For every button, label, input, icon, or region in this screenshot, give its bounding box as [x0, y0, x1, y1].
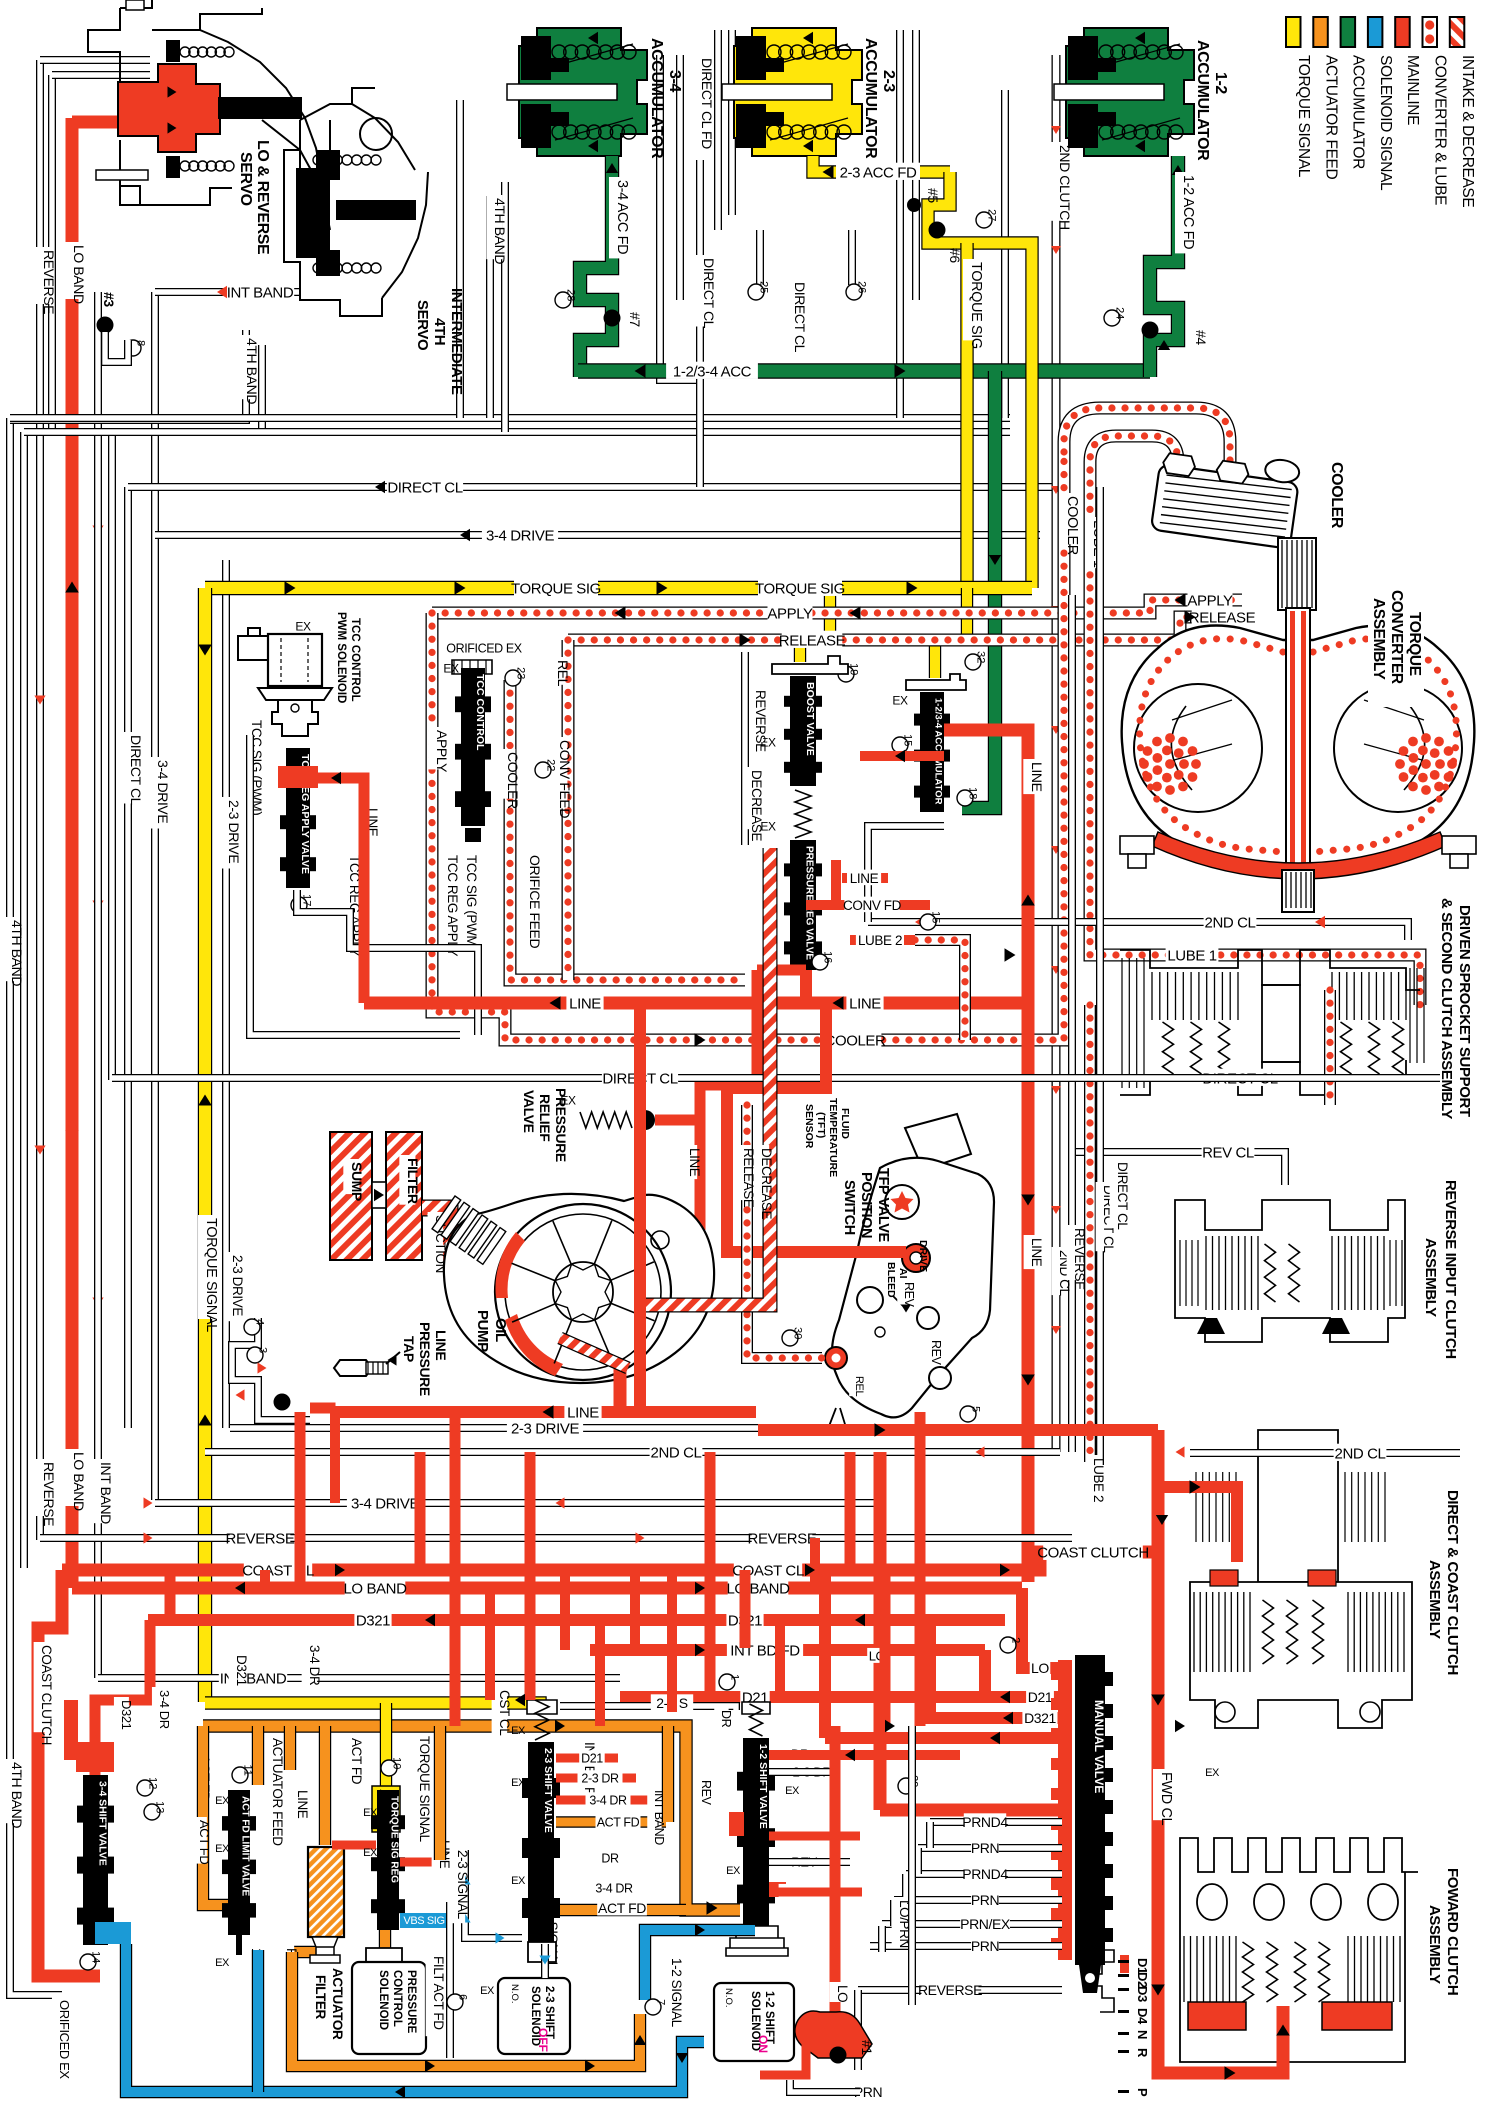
svg-text:DIRECT CL: DIRECT CL [701, 258, 717, 329]
wire 3-4 DRIVE vertical [151, 292, 159, 1500]
wire INT BAND to servo [155, 288, 300, 296]
svg-text:18: 18 [967, 787, 979, 799]
svg-text:REVERSE: REVERSE [1072, 1228, 1087, 1290]
svg-text:LINE: LINE [1029, 1238, 1044, 1267]
svg-text:PRESSURE: PRESSURE [405, 1970, 417, 2034]
svg-text:12: 12 [147, 1777, 159, 1789]
wire 1-2/3-4 ACC horizontal [578, 363, 1150, 378]
svg-text:1-2: 1-2 [1212, 72, 1229, 94]
3-4 accumulator [519, 28, 647, 156]
wire conv fd [806, 860, 836, 905]
wire d321 to manual valve [930, 1620, 1062, 1718]
svg-text:EX: EX [363, 1807, 378, 1819]
valve 1-2/3-4 ACCUMULATOR [906, 674, 966, 690]
wire 2-3 ACC FD [813, 156, 950, 172]
valve 1-2 SHIFT VALVE [742, 1702, 770, 1714]
wire left vertical 3 [48, 75, 56, 432]
svg-text:INT BAND: INT BAND [227, 284, 294, 301]
wire [912, 30, 920, 300]
svg-text:EX: EX [215, 1957, 230, 1969]
svg-text:REVERSE: REVERSE [753, 690, 768, 752]
wire LO BAND red vertical [66, 118, 79, 1588]
wire into 3-4 shift valve [95, 1620, 150, 1775]
wire reverse stub [741, 652, 749, 845]
svg-text:ASSEMBLY: ASSEMBLY [1422, 1238, 1439, 1317]
svg-text:ASSEMBLY: ASSEMBLY [1370, 598, 1387, 681]
wire vertical 710 [705, 1452, 716, 1700]
svg-text:3-4 DRIVE: 3-4 DRIVE [351, 1495, 419, 1512]
svg-text:CST CL: CST CL [497, 1690, 512, 1736]
wire lube into assembly [1324, 990, 1336, 1105]
wire 2-3 solenoid ex line [446, 1902, 454, 2058]
svg-text:#3: #3 [101, 292, 117, 307]
svg-text:25: 25 [758, 281, 770, 293]
wire DR line [769, 1750, 960, 1760]
wire lo vertical [830, 1726, 841, 2018]
wire prnd nest [902, 1874, 910, 1900]
svg-text:N.O.: N.O. [509, 1984, 520, 2004]
svg-text:REVERSE: REVERSE [41, 250, 57, 314]
manual valve [1058, 1660, 1072, 1960]
svg-text:ACTUATOR FEED: ACTUATOR FEED [270, 1738, 285, 1846]
wire INT BD FD [590, 1644, 985, 1656]
svg-text:SOLENOID SIGNAL: SOLENOID SIGNAL [1377, 55, 1394, 191]
svg-text:DECREASE: DECREASE [749, 770, 764, 841]
wire reverse top jog [40, 56, 150, 64]
svg-text:REVERSE: REVERSE [748, 1530, 817, 1547]
svg-text:FILTER: FILTER [313, 1975, 328, 2019]
wire [728, 30, 736, 215]
TFP valve position switch [905, 1114, 971, 1170]
svg-text:2: 2 [1010, 1637, 1022, 1643]
svg-text:D4: D4 [1135, 2008, 1150, 2025]
svg-text:EX: EX [215, 1843, 230, 1855]
svg-text:PRN: PRN [971, 1840, 999, 1856]
direct & coast clutch assembly [1190, 1430, 1412, 1728]
wire line to tcc reg apply [310, 778, 364, 1003]
svg-text:LINE: LINE [295, 1790, 310, 1819]
svg-text:TORQUE SIGNAL: TORQUE SIGNAL [203, 1218, 219, 1332]
svg-text:PRN: PRN [971, 1938, 999, 1954]
wire APPLY dotted [432, 600, 1242, 613]
wire into torque sig reg [380, 1703, 392, 1788]
wire drive into tfp [727, 1003, 906, 1252]
svg-text:P: P [1135, 2088, 1150, 2097]
svg-text:15: 15 [902, 734, 914, 746]
wire REVERSE mid vertical [1068, 595, 1076, 1452]
svg-text:EX: EX [443, 661, 459, 675]
svg-text:4TH BAND: 4TH BAND [9, 1762, 25, 1828]
svg-text:RELEASE: RELEASE [1189, 609, 1256, 626]
svg-text:TORQUE: TORQUE [1406, 612, 1423, 676]
svg-text:SENSOR: SENSOR [803, 1104, 815, 1149]
svg-text:3-4 DR: 3-4 DR [595, 1882, 633, 1896]
valve TCC REG APPLY VALVE [280, 748, 316, 888]
svg-text:3-4 SHIFT VALVE: 3-4 SHIFT VALVE [96, 1781, 108, 1866]
svg-text:LO: LO [1031, 1660, 1049, 1676]
svg-text:2-3 SHIFT VALVE: 2-3 SHIFT VALVE [542, 1748, 554, 1833]
svg-text:4: 4 [254, 1319, 266, 1325]
svg-text:15: 15 [930, 911, 942, 923]
wire 2nd clutch top 1 [896, 30, 904, 418]
wire DIRECT CL to assembly [1100, 1074, 1440, 1082]
svg-text:ASSEMBLY: ASSEMBLY [1426, 1560, 1443, 1639]
svg-text:REL: REL [853, 1376, 865, 1396]
wire DIRECT CL mid vertical [1096, 487, 1104, 1465]
wire prnd nest [890, 1900, 898, 1926]
wire line down to pump [695, 1120, 706, 1230]
wire LINE main vertical [944, 730, 1028, 1582]
svg-text:TFP VALVE: TFP VALVE [875, 1168, 891, 1242]
svg-text:DIRECT CL: DIRECT CL [387, 479, 462, 496]
svg-text:TORQUE SIG: TORQUE SIG [755, 580, 845, 597]
wire 2-3 signal stub [541, 1944, 549, 1978]
svg-text:LINE: LINE [850, 871, 879, 886]
wire to boost valve [800, 588, 830, 662]
svg-text:DIRECT CL: DIRECT CL [1115, 1162, 1130, 1230]
wire D21 [620, 1691, 1062, 1703]
wire left vertical 2 [20, 432, 28, 1568]
svg-text:REV CL: REV CL [1202, 1144, 1254, 1161]
svg-text:LINE: LINE [1029, 762, 1045, 792]
wire ACT FD main horizontal [203, 1726, 740, 1910]
svg-text:REV: REV [902, 1282, 916, 1308]
svg-text:26: 26 [856, 281, 868, 293]
svg-text:DRIVE: DRIVE [917, 1240, 929, 1272]
svg-text:2-3 DRIVE: 2-3 DRIVE [230, 1255, 245, 1316]
wire 3-4 ACC FD [580, 156, 612, 377]
wire 2-3 DRIVE vertical [222, 560, 230, 1428]
svg-text:RELEASE: RELEASE [779, 632, 846, 649]
manual valve position indicator [1090, 1950, 1114, 2012]
wire to 1-2/3-4 accumulator valve [935, 588, 967, 678]
wire LO BAND into servo [72, 116, 125, 129]
wire 2-3 S [560, 1706, 736, 1710]
svg-text:4TH BAND: 4TH BAND [244, 338, 260, 404]
svg-text:ORIFICED EX: ORIFICED EX [57, 2000, 72, 2079]
svg-text:LINE: LINE [849, 995, 881, 1012]
svg-text:TORQUE SIGNAL: TORQUE SIGNAL [1295, 55, 1312, 178]
wire to line [310, 1408, 330, 1412]
svg-text:EX: EX [511, 1725, 526, 1737]
svg-text:LO BAND: LO BAND [71, 1452, 87, 1511]
wire DIRECT CL horizontal [128, 483, 1052, 491]
svg-text:8: 8 [135, 340, 147, 346]
svg-text:TORQUE SIGNAL: TORQUE SIGNAL [417, 1736, 432, 1842]
wire tcc sig pwm route [297, 890, 478, 1035]
wire valve jog [860, 751, 944, 761]
wire 4TH BAND servo drop [10, 330, 246, 420]
svg-text:(TFT): (TFT) [815, 1112, 827, 1138]
svg-text:PRN/EX: PRN/EX [960, 1916, 1011, 1932]
reverse input clutch assembly [1175, 1200, 1405, 1342]
svg-text:OFF: OFF [536, 2028, 550, 2052]
wire relief to line [655, 1115, 700, 1126]
svg-text:ACT FD LIMIT VALVE: ACT FD LIMIT VALVE [240, 1796, 251, 1897]
svg-text:LINE: LINE [687, 1148, 702, 1177]
wire vertical 885 [880, 1570, 891, 1726]
svg-text:R: R [1135, 2048, 1150, 2058]
svg-text:1: 1 [729, 1674, 741, 1680]
wire 3-4 DRIVE horizontal [155, 531, 1040, 539]
svg-text:FLUID: FLUID [839, 1108, 851, 1139]
svg-text:MANUAL VALVE: MANUAL VALVE [1092, 1700, 1106, 1793]
svg-text:2-3 DRIVE: 2-3 DRIVE [226, 800, 242, 863]
wire stub 25 [756, 230, 764, 285]
svg-text:2ND CL: 2ND CL [1335, 1445, 1386, 1462]
1-2 accumulator [1066, 28, 1194, 156]
wire prnd nest [878, 1926, 886, 1952]
wire prn stub [760, 2040, 806, 2075]
svg-text:N.O.: N.O. [723, 1988, 734, 2008]
svg-text:5: 5 [970, 1406, 982, 1412]
svg-text:TCC SIG (PWM): TCC SIG (PWM) [464, 855, 479, 950]
svg-text:1-2 ACC FD: 1-2 ACC FD [1180, 175, 1196, 249]
svg-text:DIRECT CL: DIRECT CL [128, 735, 144, 806]
wire torque signal bottom [205, 1703, 540, 1712]
svg-text:10: 10 [391, 1757, 403, 1769]
wire top band bus 2 [24, 428, 1010, 436]
svg-text:PUMP: PUMP [474, 1310, 491, 1352]
valve TCC CONTROL body [455, 668, 491, 826]
svg-text:ACTUATOR FEED: ACTUATOR FEED [1322, 55, 1339, 179]
svg-text:DRIVEN SPROCKET SUPPORT: DRIVEN SPROCKET SUPPORT [1456, 905, 1473, 1117]
svg-text:RELEASE: RELEASE [741, 1148, 756, 1208]
svg-text:#5: #5 [925, 188, 941, 203]
svg-text:APPLY: APPLY [1187, 592, 1233, 609]
wire 4TH BAND right of servo [456, 100, 464, 418]
wire pump intake arc [560, 1338, 628, 1368]
wire D321 [148, 1614, 1005, 1626]
svg-text:BOOST VALVE: BOOST VALVE [804, 682, 816, 756]
wire LUBE 1 dotted [1090, 470, 1420, 1005]
wire cooler dotted loop [432, 452, 1064, 1040]
svg-text:FWD CL: FWD CL [1158, 1772, 1174, 1826]
svg-text:#7: #7 [627, 312, 643, 327]
wire DIRECT CL mid horizontal [112, 1074, 1100, 1082]
svg-text:PRESSURE: PRESSURE [553, 1088, 569, 1162]
svg-text:2-3 SIGNAL: 2-3 SIGNAL [455, 1850, 470, 1920]
wire lube2 stub [850, 935, 915, 945]
svg-text:7: 7 [655, 1999, 667, 2005]
svg-text:LO & REVERSE: LO & REVERSE [254, 140, 271, 255]
svg-text:FILT ACT FD: FILT ACT FD [431, 1956, 446, 2030]
wire LINE horizontal [364, 997, 1028, 1010]
valve ACT FD LIMIT VALVE [203, 1726, 228, 1905]
svg-text:LO BAND: LO BAND [343, 1580, 407, 1597]
wire prn line [790, 2080, 860, 2092]
wire 2ND CL [868, 922, 1408, 940]
svg-text:#1: #1 [859, 2040, 875, 2055]
svg-text:ASSEMBLY: ASSEMBLY [1426, 1905, 1443, 1984]
wire line into reg [332, 1841, 376, 1850]
svg-text:4TH: 4TH [431, 318, 448, 345]
wire [676, 55, 684, 300]
wire tcc reg apply left [250, 735, 460, 1035]
PRND ladder wires [930, 1818, 1062, 1826]
svg-text:D21: D21 [1028, 1689, 1053, 1705]
svg-text:COOLER: COOLER [825, 1032, 887, 1049]
svg-text:DR: DR [601, 1852, 619, 1866]
svg-text:EX: EX [785, 1785, 800, 1797]
wire vertical 530 [525, 1452, 536, 1700]
svg-text:SERVO: SERVO [237, 152, 254, 206]
wire reverse drop [854, 1990, 862, 2070]
svg-text:ACT FD: ACT FD [197, 1820, 212, 1864]
svg-text:DIRECT CL FD: DIRECT CL FD [699, 58, 715, 149]
actuator filter [319, 1726, 331, 1845]
wire REVERSE vertical [36, 60, 44, 1540]
wire top band bus 1 [10, 414, 1010, 422]
wire stub 26 [848, 230, 856, 285]
wire line stub [842, 873, 888, 883]
2-3 accumulator [734, 28, 862, 156]
svg-text:SERVO: SERVO [414, 300, 431, 351]
svg-text:30: 30 [792, 1327, 804, 1339]
svg-text:TAP: TAP [401, 1336, 417, 1362]
svg-text:3-4: 3-4 [666, 70, 683, 92]
svg-text:EX: EX [363, 1847, 378, 1859]
svg-text:4TH BAND: 4TH BAND [492, 198, 508, 264]
svg-text:DR: DR [719, 1710, 733, 1728]
svg-text:REV: REV [929, 1340, 943, 1366]
wire prnd nest [926, 1822, 934, 1848]
wire TORQUE SIG vertical [960, 243, 973, 588]
svg-text:TORQUE SIG: TORQUE SIG [511, 580, 601, 597]
svg-text:& SECOND CLUTCH ASSEMBLY: & SECOND CLUTCH ASSEMBLY [1438, 898, 1455, 1119]
wire line to relief valve [700, 970, 757, 1120]
svg-text:LINE: LINE [569, 995, 601, 1012]
svg-text:14: 14 [90, 1951, 102, 1963]
red bottom verticals grid [165, 1570, 176, 1620]
svg-text:2-3 ACC FD: 2-3 ACC FD [840, 164, 917, 181]
wire DIRECT CL FD vertical [660, 55, 700, 380]
wire line port [880, 1804, 1062, 1817]
svg-text:LINE: LINE [433, 1330, 449, 1360]
line pressure tap [334, 1360, 372, 1376]
wire line drop mid [874, 1452, 887, 1810]
svg-text:17: 17 [301, 894, 313, 906]
wire [714, 30, 722, 230]
wire from 3-4 accumulator left [486, 196, 494, 418]
svg-text:3-4 DR: 3-4 DR [589, 1794, 627, 1808]
svg-text:2-3 DRIVE: 2-3 DRIVE [511, 1420, 579, 1437]
wire direct cl drop [696, 160, 704, 487]
svg-text:APPLY: APPLY [767, 605, 813, 622]
svg-text:EX: EX [511, 1875, 526, 1887]
wire TORQUE SIGNAL long vertical [198, 588, 212, 1702]
wire RELEASE dotted [568, 617, 1242, 640]
svg-text:2-3 DR: 2-3 DR [581, 1772, 619, 1786]
svg-text:32: 32 [975, 651, 987, 663]
wire 4th band right [1001, 90, 1009, 418]
wire conv feed dotted [562, 640, 575, 980]
wire act fd into 1-2 shift valve [530, 1904, 686, 1916]
wire vertical 455 [450, 1412, 461, 1726]
svg-text:ACCUMULATOR: ACCUMULATOR [1350, 55, 1367, 169]
svg-text:REV: REV [699, 1780, 713, 1806]
wire 1-2 ACC FD [1150, 156, 1178, 377]
valve TCC CONTROL [452, 660, 492, 674]
svg-text:TCC REG APPLY: TCC REG APPLY [445, 855, 460, 956]
svg-text:TCC CONTROL: TCC CONTROL [474, 674, 486, 751]
svg-text:MAINLINE: MAINLINE [1404, 55, 1421, 125]
svg-text:3: 3 [257, 1347, 269, 1353]
svg-text:LO BAND: LO BAND [71, 245, 87, 304]
wire 2nd cl from accumulator valve [868, 826, 944, 922]
svg-text:TEMPERATURE: TEMPERATURE [827, 1098, 839, 1177]
svg-text:RELIEF: RELIEF [537, 1094, 553, 1142]
svg-text:D321: D321 [356, 1612, 390, 1629]
wire ball3 jog [105, 332, 128, 362]
svg-text:TORQUE SIG: TORQUE SIG [968, 262, 984, 349]
svg-text:2-3: 2-3 [880, 70, 897, 92]
svg-text:PRND4: PRND4 [962, 1866, 1008, 1882]
svg-text:PRND4: PRND4 [962, 1814, 1008, 1830]
svg-text:REVERSE: REVERSE [918, 1982, 982, 1998]
1-2 shift solenoid [726, 1926, 788, 1956]
svg-text:16: 16 [822, 951, 834, 963]
sump and filter [330, 1132, 372, 1260]
svg-text:CONVERTER: CONVERTER [1388, 590, 1405, 684]
svg-text:LO BAND: LO BAND [726, 1580, 790, 1597]
svg-text:PRESSURE: PRESSURE [417, 1322, 433, 1396]
svg-text:3-4 DR: 3-4 DR [307, 1645, 322, 1686]
wire LO BAND [72, 1582, 1022, 1595]
svg-text:OIL: OIL [492, 1318, 509, 1342]
svg-text:COOLER: COOLER [1328, 462, 1345, 529]
wire into direct coast assembly [1158, 1487, 1237, 1562]
svg-text:APPLY: APPLY [434, 730, 450, 773]
svg-text:23: 23 [515, 667, 527, 679]
svg-text:#6: #6 [947, 248, 963, 263]
wire DIRECT CL vertical [124, 487, 132, 1428]
svg-text:#4: #4 [1193, 330, 1209, 345]
wire REV CL [1072, 1152, 1285, 1185]
wire 3-4 DRIVE bottom [155, 1499, 880, 1507]
wire drive port [825, 1732, 1062, 1744]
svg-text:1-2/3-4 ACC: 1-2/3-4 ACC [673, 363, 752, 380]
svg-text:VBS SIG: VBS SIG [403, 1915, 444, 1927]
wire act fd to 2-3 shift valve [662, 1726, 674, 1822]
svg-text:22: 22 [545, 759, 557, 771]
svg-text:COAST CLUTCH: COAST CLUTCH [39, 1645, 54, 1745]
wire ball2 jogs [232, 1318, 310, 1420]
svg-text:LUBE 1: LUBE 1 [1167, 947, 1216, 964]
wire LUBE 2 dotted vertical [1084, 1005, 1096, 1462]
wire [108, 430, 116, 1080]
svg-text:CONVERTER & LUBE: CONVERTER & LUBE [1432, 55, 1449, 205]
svg-text:13: 13 [154, 1801, 166, 1813]
svg-text:EX: EX [1205, 1767, 1220, 1779]
wire [52, 71, 150, 79]
svg-text:3-4 DRIVE: 3-4 DRIVE [486, 527, 554, 544]
cooler [1151, 443, 1302, 549]
wire 4TH BAND left vertical [10, 418, 62, 1995]
svg-text:FILTER: FILTER [405, 1158, 421, 1204]
svg-text:ORIFICED EX: ORIFICED EX [446, 642, 523, 656]
svg-text:ACCUMULATOR: ACCUMULATOR [1194, 40, 1211, 161]
wire 1-2 signal stub [252, 1950, 264, 2092]
svg-text:VALVE: VALVE [521, 1090, 537, 1133]
svg-text:D321: D321 [1024, 1710, 1056, 1726]
wire 2-3 DRIVE horizontal [230, 1424, 880, 1432]
wire act fd bottom run [292, 1952, 640, 2066]
wire 2ND CLUTCH vertical [1052, 55, 1061, 1452]
legend [1286, 17, 1301, 47]
2-3 shift solenoid [528, 1942, 556, 1962]
svg-text:DIRECT CL: DIRECT CL [792, 282, 808, 353]
